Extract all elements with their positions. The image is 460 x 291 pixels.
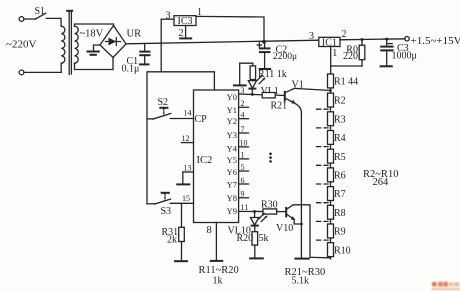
svg-text:14: 14 xyxy=(184,109,192,118)
resistor R20 5k with ground xyxy=(237,226,269,259)
ground bus bar xyxy=(294,258,310,260)
svg-text:R10: R10 xyxy=(334,245,351,256)
capacitor C2 2200u electrolytic xyxy=(257,42,297,69)
switch S3 pushbutton xyxy=(147,193,194,217)
svg-text:~18V: ~18V xyxy=(80,29,104,40)
svg-text:IC1: IC1 xyxy=(322,37,337,48)
svg-text:5.1k: 5.1k xyxy=(292,276,310,287)
node junction dot at C2 / rail xyxy=(262,40,266,44)
svg-text:R7: R7 xyxy=(334,189,346,200)
svg-text:15: 15 xyxy=(182,194,190,203)
wire common emitter bus xyxy=(300,113,302,258)
IC3 regulator xyxy=(161,7,202,43)
svg-text:13: 13 xyxy=(184,164,192,173)
IC1 regulator xyxy=(309,29,347,59)
svg-text:V10: V10 xyxy=(276,223,293,234)
wire +rail from bridge to IC1 pin3 xyxy=(126,40,319,44)
resistor R7 xyxy=(328,187,334,201)
svg-text:S2: S2 xyxy=(158,97,169,108)
transformer T primary winding xyxy=(61,18,65,72)
wire feed tee down to IC2 circuit xyxy=(147,43,161,204)
svg-text:R1 44: R1 44 xyxy=(334,77,358,88)
wire IC1 pin1 adj down xyxy=(330,47,332,75)
resistor R10 xyxy=(328,243,334,257)
svg-text:Y8: Y8 xyxy=(227,193,237,203)
bridge rectifier UR xyxy=(100,26,141,58)
resistor R2 xyxy=(328,93,334,107)
svg-text:S3: S3 xyxy=(161,206,172,217)
resistor R11 1k with ground bracket xyxy=(233,63,287,85)
wire IC1 pin2 output rail to terminal xyxy=(340,39,405,40)
svg-text:Y5: Y5 xyxy=(227,155,237,165)
svg-text:R5: R5 xyxy=(334,152,346,163)
svg-text:1: 1 xyxy=(332,48,337,59)
svg-text:2k: 2k xyxy=(167,235,177,246)
ground at bridge negative corner xyxy=(87,45,101,55)
transformer core xyxy=(66,11,73,75)
capacitor C1 0.1u xyxy=(122,44,151,75)
node ~220V input terminal lower xyxy=(6,39,61,75)
resistor R4 xyxy=(328,131,334,145)
IC2 output labels Y0..Y9 xyxy=(227,92,238,216)
svg-text:Y0: Y0 xyxy=(227,92,237,102)
svg-text:~220V: ~220V xyxy=(6,39,36,51)
resistor R5 xyxy=(328,149,334,163)
svg-text:R4: R4 xyxy=(334,133,346,144)
transformer secondary winding, label ~18V xyxy=(75,26,104,63)
resistor R3 xyxy=(328,112,334,126)
svg-text:2: 2 xyxy=(342,29,347,40)
wire V1 collector to chain junction R1/R2 xyxy=(294,88,330,90)
switch S1 xyxy=(19,6,61,21)
svg-text:Y4: Y4 xyxy=(227,144,238,154)
svg-text:5k: 5k xyxy=(259,233,269,244)
svg-text:Y1: Y1 xyxy=(227,105,237,115)
svg-text:S1: S1 xyxy=(35,6,46,17)
resistor R0 220 xyxy=(343,38,365,66)
resistor R9 xyxy=(328,224,334,238)
svg-text:Y9: Y9 xyxy=(227,206,237,216)
svg-text:3: 3 xyxy=(309,31,314,42)
transistor V1 xyxy=(285,80,304,104)
svg-text:1k: 1k xyxy=(213,276,223,287)
IC2 pin 8 to ground xyxy=(207,223,224,261)
svg-text:R9: R9 xyxy=(334,227,346,238)
IC3 pin2 ground xyxy=(179,26,192,39)
svg-text:3: 3 xyxy=(166,10,171,21)
LED VL10 xyxy=(228,212,268,237)
IC2 pin 13 to ground xyxy=(176,164,193,185)
capacitor C3 1000u xyxy=(380,38,417,67)
wire V10 collector to chain bottom xyxy=(293,205,330,258)
switch S2 pushbutton xyxy=(147,97,194,119)
wire Y9 pin11 to V10 base xyxy=(239,210,287,212)
transistor V10 xyxy=(276,205,295,234)
svg-text:R11~R20: R11~R20 xyxy=(199,265,239,276)
resistor R8 xyxy=(328,205,334,219)
svg-text:220: 220 xyxy=(343,51,358,62)
resistor R21 on Y0 wire xyxy=(262,93,287,112)
svg-text:12: 12 xyxy=(182,134,190,143)
resistor R31 2k with ground xyxy=(162,203,189,261)
wire V10 emitter to bus xyxy=(294,219,301,224)
wire secondary bottom to bridge bottom corner xyxy=(75,58,114,70)
IC2 pin number labels and stubs Y1..Y8 xyxy=(240,86,249,212)
svg-text:2200μ: 2200μ xyxy=(273,52,297,62)
svg-text:CP: CP xyxy=(195,114,208,125)
wire IC3 pin1 output to rail junction xyxy=(196,16,264,41)
LED VL1 xyxy=(248,75,279,97)
svg-text:IC2: IC2 xyxy=(197,155,213,166)
svg-text:R6: R6 xyxy=(334,171,346,182)
wire secondary top to bridge top corner xyxy=(75,24,114,26)
svg-text:0.1μ: 0.1μ xyxy=(122,64,140,75)
node VL1 tap dot xyxy=(251,93,254,96)
svg-text:264: 264 xyxy=(373,177,390,188)
svg-text:Y2: Y2 xyxy=(227,116,237,126)
wire dashed stubs at chain junctions xyxy=(317,109,329,240)
svg-text:+1.5~+15V: +1.5~+15V xyxy=(411,35,460,47)
svg-text:UR: UR xyxy=(127,29,142,40)
node output terminal +1.5~+15V xyxy=(405,35,460,47)
svg-text:1000μ: 1000μ xyxy=(392,51,417,62)
wire R0 bottom to IC1 adj node xyxy=(331,65,362,67)
svg-text:R20: R20 xyxy=(237,233,254,244)
resistor R30 on Y9 wire xyxy=(261,200,278,215)
IC2 pin 12 stub xyxy=(182,134,194,143)
svg-text:2: 2 xyxy=(179,28,184,39)
wire Y0 pin3 to V1 base xyxy=(239,94,285,96)
IC2 counter box xyxy=(194,90,239,223)
svg-text:R8: R8 xyxy=(334,208,346,219)
svg-text:Y3: Y3 xyxy=(227,130,237,140)
resistor R6 xyxy=(328,168,334,182)
svg-text:R2: R2 xyxy=(334,96,346,107)
resistor R1 44 xyxy=(328,74,334,88)
svg-text:R21: R21 xyxy=(271,101,288,112)
svg-text:Y6: Y6 xyxy=(227,167,237,177)
node VL10 tap dot xyxy=(253,210,256,213)
svg-text:R11 1k: R11 1k xyxy=(258,69,287,80)
svg-text:8: 8 xyxy=(207,225,212,236)
wire resistor chain spine xyxy=(330,74,332,259)
wire V1 emitter to common bus xyxy=(295,103,302,112)
dots vertical ellipsis xyxy=(269,153,272,163)
svg-text:R3: R3 xyxy=(334,114,346,125)
svg-text:Y7: Y7 xyxy=(227,179,237,189)
svg-text:R30: R30 xyxy=(261,200,278,211)
